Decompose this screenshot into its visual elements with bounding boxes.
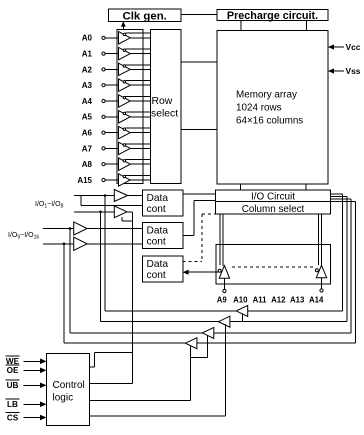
svg-text:64×16 columns: 64×16 columns: [236, 115, 303, 126]
wire: T4 output left to riser: [64, 342, 185, 344]
memory array box: [217, 31, 328, 185]
svg-text:A5: A5: [82, 113, 93, 122]
wire: riser x=64 from B2b line down to A13 bus: [63, 244, 65, 343]
Vss supply arrow and label: [328, 70, 344, 72]
wire: buffer A1 outputs to row select: [126, 48, 151, 50]
input buffer B1b for I/O1-8: [114, 206, 127, 218]
wire: T2 lower tap down to control logic: [225, 324, 227, 416]
wire: T4 lower tap down to control logic: [190, 346, 192, 401]
svg-text:Data: Data: [147, 193, 169, 204]
column address buffer T2: [218, 316, 230, 327]
wire: I/O9-16 input line to B2a: [43, 228, 74, 230]
input buffer B2b for I/O9-16: [74, 237, 87, 250]
input buffer B2a for I/O9-16: [74, 222, 87, 235]
svg-text:A3: A3: [82, 81, 93, 90]
wire: riser x=105 from B1a line down to A10 bus: [104, 196, 106, 311]
column address buffer T4: [185, 338, 197, 349]
column address buffer T3: [202, 327, 214, 338]
pin A9 terminal: [223, 278, 225, 289]
svg-text:A1: A1: [82, 50, 93, 59]
svg-text:A9: A9: [217, 295, 228, 304]
address buffer for A1: [119, 47, 131, 59]
svg-text:A14: A14: [309, 295, 324, 304]
bit line pair to right sense amp: [318, 214, 320, 265]
address buffer for A6: [119, 126, 131, 138]
wire: buffer A6 outputs to row select: [126, 127, 151, 129]
address buffer for A15: [119, 174, 131, 186]
wire: I/O circuit right bus loop to A12 buffer: [331, 198, 352, 200]
svg-text:A10: A10: [233, 295, 248, 304]
wire: Clk gen to Precharge circuit: [181, 13, 217, 15]
svg-text:A12: A12: [271, 295, 286, 304]
wire: data cont 2 output riser to I/O circuit: [183, 235, 194, 237]
svg-text:UB: UB: [7, 381, 19, 390]
address buffer column box: [117, 30, 143, 184]
svg-text:A0: A0: [82, 34, 93, 43]
left sense amplifier: [219, 266, 229, 279]
input buffer B1a for I/O1-8: [114, 190, 127, 202]
svg-text:Memory array: Memory array: [236, 89, 297, 100]
column address buffer T1: [236, 305, 248, 316]
svg-text:select: select: [151, 109, 178, 120]
wire: I/O circuit right bus loop to A10 buffer: [331, 193, 343, 195]
wire: buffer A0 outputs to row select: [126, 32, 151, 34]
address buffer for A7: [119, 142, 131, 154]
clock generator box "Clk gen.": [109, 9, 182, 21]
svg-text:Vss: Vss: [346, 66, 361, 76]
I/O circuit box "I/O Circuit": [216, 190, 331, 202]
svg-text:1024 rows: 1024 rows: [236, 102, 282, 113]
right sense amplifier: [316, 265, 326, 278]
wire: I/O circuit right bus loop to A13 buffer: [331, 200, 356, 202]
svg-text:cont: cont: [147, 237, 166, 248]
svg-text:CS: CS: [7, 413, 19, 422]
data control box 3 "Data cont": [143, 256, 184, 282]
wire: riser x=70 from B2a line down to A12 bus: [69, 229, 71, 333]
wire: B2b output to data cont 2: [87, 243, 142, 245]
svg-text:Clk gen.: Clk gen.: [123, 10, 167, 22]
svg-text:A6: A6: [82, 129, 93, 138]
svg-text:Data: Data: [147, 225, 169, 236]
bit line pair to left sense amp: [219, 214, 221, 265]
dashed line between sense amplifiers: [232, 266, 313, 268]
wire: row select to memory array (upper): [181, 61, 217, 63]
wire stub: memory array to I/O circuit (right): [305, 184, 307, 190]
address buffer for A8: [119, 158, 131, 170]
address buffer for A5: [119, 111, 131, 123]
wire: I/O9-16 second line to B2b: [43, 243, 74, 245]
svg-text:Column select: Column select: [242, 204, 305, 215]
wire: buffer A2 outputs to row select: [126, 64, 151, 66]
wire: B1a output to data cont 1: [128, 195, 143, 197]
precharge circuit box "Precharge circuit.": [217, 10, 328, 21]
svg-text:I/O Circuit: I/O Circuit: [251, 191, 295, 202]
data control box 1 "Data cont": [143, 190, 184, 216]
wire: row select to memory array (lower): [181, 129, 217, 131]
svg-text:logic: logic: [53, 392, 74, 403]
svg-text:Precharge circuit.: Precharge circuit.: [227, 10, 318, 22]
wire: left sense amp output arrow into data cont 3: [189, 271, 219, 273]
wire stub: precharge to memory array (right): [306, 21, 308, 31]
address buffer for A2: [119, 63, 131, 75]
node: junction on B1b line: [99, 211, 102, 214]
wire: B2a output to data cont 2: [87, 228, 142, 230]
wire: jog from B1a line down into data cont 1: [80, 196, 82, 206]
address buffer for A0: [119, 32, 131, 44]
svg-text:LB: LB: [7, 400, 18, 409]
wire: B1b output wraps right and down: [127, 211, 132, 213]
data control box 2 "Data cont": [143, 223, 184, 249]
svg-text:OE: OE: [7, 366, 19, 375]
wire: T3 output left to riser: [70, 332, 202, 334]
wire: I/O1-8 input line to B1a: [74, 195, 114, 197]
node: junction on B1a line: [104, 194, 107, 197]
svg-text:cont: cont: [147, 204, 166, 215]
wire: control output to I/O data path riser: [89, 383, 132, 385]
arrow: address buffer box up to Clk gen: [122, 24, 124, 30]
wire: buffer A15 outputs to row select: [126, 174, 151, 176]
wire: riser x=100.5 from B1b line down to A11 bus: [100, 212, 102, 322]
Vcc supply arrow and label: [328, 46, 344, 48]
svg-text:Data: Data: [147, 259, 169, 270]
wire: T3 lower tap down and left: [207, 336, 209, 358]
svg-text:A15: A15: [77, 176, 92, 185]
svg-text:A7: A7: [82, 144, 93, 153]
wire: control output to T4 tap: [89, 400, 190, 402]
svg-text:Control: Control: [53, 380, 85, 391]
wire: control output jog (top): [89, 366, 94, 368]
svg-text:cont: cont: [147, 270, 166, 281]
pin A14 terminal: [321, 278, 323, 289]
wire stub: memory array to I/O circuit (left): [240, 184, 242, 190]
node: junction on B2b line: [63, 243, 66, 246]
sense amplifier enclosure box: [216, 245, 331, 284]
dashed wire: data cont 3 to column select: [183, 261, 202, 263]
address buffer for A3: [119, 79, 131, 91]
svg-text:A8: A8: [82, 160, 93, 169]
wire: buffer A4 outputs to row select: [126, 95, 151, 97]
svg-text:A2: A2: [82, 65, 93, 74]
wire: buffer A8 outputs to row select: [126, 159, 151, 161]
svg-text:Vcc: Vcc: [346, 42, 361, 52]
wire: buffer A7 outputs to row select: [126, 143, 151, 145]
wire: I/O1-8 second line to B1b: [74, 211, 114, 213]
wire stub: precharge to memory array (left): [240, 21, 242, 31]
wire: jog under B1b: [121, 217, 123, 221]
column select box "Column select": [216, 202, 331, 214]
wire: control output to T2 tap: [89, 415, 225, 417]
svg-text:A13: A13: [290, 295, 305, 304]
control logic box "Control logic": [47, 353, 90, 425]
svg-text:A4: A4: [82, 97, 93, 106]
wire: buffer A3 outputs to row select: [126, 80, 151, 82]
wire: T1 output left to riser: [105, 310, 236, 312]
node: junction on B2a line: [69, 227, 72, 230]
wire: I/O circuit right bus loop to A11 buffer: [331, 196, 347, 198]
address buffer for A4: [119, 95, 131, 107]
svg-text:A11: A11: [253, 295, 268, 304]
svg-text:Row: Row: [152, 96, 173, 107]
row select box "Row select": [150, 30, 181, 184]
wire: buffer A5 outputs to row select: [126, 111, 151, 113]
wire: T2 output left to riser: [101, 321, 219, 323]
wire: jog below T1 to T2 bus: [241, 314, 243, 322]
wire: data cont 1 output to I/O circuit: [183, 193, 216, 195]
